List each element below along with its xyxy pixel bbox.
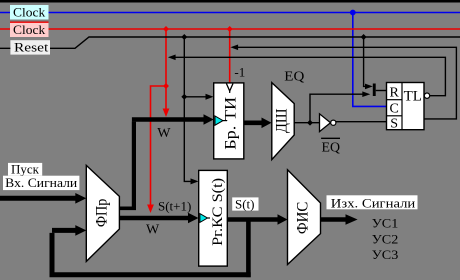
svg-text:Clock: Clock (13, 4, 46, 19)
svg-text:УС3: УС3 (372, 247, 399, 262)
svg-text:Reset: Reset (14, 40, 49, 55)
svg-text:УС2: УС2 (372, 231, 399, 246)
svg-text:R: R (390, 86, 400, 101)
svg-text:TL: TL (404, 89, 422, 105)
svg-text:Рг.КС S(t): Рг.КС S(t) (210, 178, 226, 246)
svg-text:EQ: EQ (284, 69, 304, 84)
svg-text:S(t+1): S(t+1) (158, 199, 191, 214)
svg-text:Clock: Clock (13, 22, 46, 37)
svg-text:ДШ: ДШ (273, 108, 290, 133)
svg-text:W: W (157, 126, 171, 141)
svg-text:S(t): S(t) (235, 196, 255, 211)
svg-text:ФИС: ФИС (294, 202, 311, 235)
svg-text:Бр. ТИ: Бр. ТИ (222, 97, 239, 150)
svg-text:ФПр: ФПр (93, 198, 110, 227)
svg-text:Изх. Сигнали: Изх. Сигнали (331, 196, 416, 211)
svg-text:S: S (390, 117, 398, 132)
svg-text:C: C (390, 102, 399, 117)
svg-text:-1: -1 (234, 65, 245, 80)
svg-text:Вх. Сигнали: Вх. Сигнали (5, 175, 77, 190)
svg-text:W: W (146, 222, 160, 237)
svg-text:EQ: EQ (322, 140, 341, 155)
svg-text:УС1: УС1 (372, 216, 399, 231)
